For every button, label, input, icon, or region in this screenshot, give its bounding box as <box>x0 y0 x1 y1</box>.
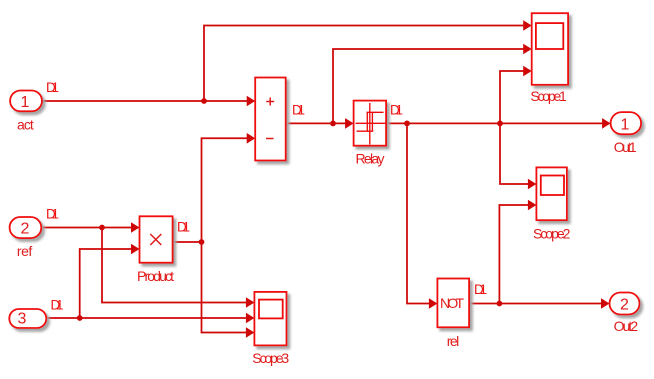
junction port3/product <box>77 315 83 321</box>
arrowhead sum plus <box>247 96 256 107</box>
label D1 relay out <box>390 103 403 118</box>
svg-text:NOT: NOT <box>440 295 464 311</box>
label Scope1 <box>530 88 567 104</box>
wire branch to Scope3 in1 <box>102 228 247 303</box>
svg-text:D1: D1 <box>390 103 403 118</box>
junction main/scope <box>497 121 503 127</box>
svg-text:2: 2 <box>21 221 30 238</box>
wire branch up to Product in2 <box>80 249 132 318</box>
svg-text:D1: D1 <box>46 206 59 221</box>
arrowhead scope1 in3 <box>523 66 532 77</box>
sum block <box>255 78 286 161</box>
relay icon <box>356 103 386 145</box>
wire branch down to NOT input <box>407 123 430 303</box>
wire product output <box>173 241 202 243</box>
wire branch to Scope1 in2 <box>333 49 524 123</box>
wire relay output to Out1 <box>386 122 602 124</box>
label rel <box>447 333 460 349</box>
arrowhead product in2 <box>131 244 140 255</box>
inport 1 act <box>10 91 42 112</box>
arrowhead Out1 in <box>602 118 611 129</box>
arrowhead scope1 in1 <box>523 20 532 31</box>
label ref <box>17 243 33 259</box>
wire sum output to relay <box>286 122 346 124</box>
wire top branch to Scope1 in1 <box>204 26 524 102</box>
label Scope3 <box>252 350 289 366</box>
junction product out <box>199 239 205 245</box>
junction main/not <box>404 121 410 127</box>
svg-text:Out1: Out1 <box>614 139 637 155</box>
wire branch up to Sum minus <box>202 138 248 242</box>
label D1 ref <box>46 206 59 221</box>
arrowhead sum minus <box>247 133 256 144</box>
wire branch down to Scope3 in3 <box>202 242 247 333</box>
wire port3 line to Scope3 in2 <box>46 317 247 319</box>
label D1 sum out <box>292 103 305 118</box>
arrowhead Out2 in <box>601 298 610 309</box>
arrowhead scope1 in2 <box>523 44 532 55</box>
arrowhead scope2 in1 <box>528 179 537 190</box>
junction act/top <box>201 98 207 104</box>
junction main/scope1in2 <box>330 121 336 127</box>
svg-text:D1: D1 <box>474 282 487 297</box>
scope3 screen <box>259 300 283 319</box>
scope1 screen <box>536 23 563 49</box>
outport 1 <box>611 112 642 134</box>
scope2 screen <box>541 176 564 196</box>
wire branch to Scope2 in1 <box>500 123 529 184</box>
arrowhead scope3 in1 <box>246 297 255 308</box>
label Scope2 <box>533 226 571 242</box>
NOT block <box>437 279 469 328</box>
scope2 block <box>536 167 567 220</box>
wire branch up to Scope2 in2 <box>499 205 528 304</box>
svg-text:Scope2: Scope2 <box>533 226 571 242</box>
svg-text:Scope3: Scope3 <box>252 350 289 366</box>
svg-text:1: 1 <box>21 94 30 111</box>
inport 3 <box>9 309 46 328</box>
svg-text:Scope1: Scope1 <box>530 88 567 104</box>
label D1 product out <box>177 220 190 235</box>
arrowhead relay in <box>345 118 354 129</box>
svg-text:rel: rel <box>447 333 460 349</box>
label NOT <box>440 295 464 311</box>
label act <box>17 117 34 133</box>
svg-text:Product: Product <box>137 268 174 284</box>
junction ref/scope3 <box>99 225 105 231</box>
outport 2 <box>610 293 640 315</box>
wire ref line to Product in1 <box>41 227 132 229</box>
svg-text:Relay: Relay <box>356 151 385 167</box>
label D1 act <box>46 80 59 95</box>
label Product <box>137 268 174 284</box>
svg-text:3: 3 <box>18 311 27 328</box>
arrowhead scope2 in2 <box>528 200 537 211</box>
label Relay <box>356 151 385 167</box>
arrowhead scope3 in3 <box>246 327 255 338</box>
product X sign <box>150 234 161 245</box>
svg-text:D1: D1 <box>177 220 190 235</box>
arrowhead scope3 in2 <box>246 313 255 324</box>
label Out2 <box>614 318 639 334</box>
scope1 block <box>532 13 568 85</box>
arrowhead product in1 <box>131 222 140 233</box>
label D1 port3 <box>51 298 64 313</box>
svg-text:D1: D1 <box>292 103 305 118</box>
label Out1 <box>614 139 637 155</box>
inport 2 ref <box>10 217 42 238</box>
wire NOT output to Out2 <box>469 303 601 305</box>
label D1 not out <box>474 282 487 297</box>
sum plus sign <box>266 98 274 106</box>
relay block <box>354 101 387 146</box>
svg-text:D1: D1 <box>46 80 59 95</box>
junction notout/scope2 <box>497 301 503 307</box>
svg-text:act: act <box>17 117 34 133</box>
arrowhead NOT in <box>429 298 438 309</box>
svg-text:D1: D1 <box>51 298 64 313</box>
sum minus sign <box>266 138 274 140</box>
wire act line <box>42 100 247 102</box>
svg-text:1: 1 <box>621 116 630 133</box>
svg-text:Out2: Out2 <box>614 318 639 334</box>
product block <box>140 216 173 262</box>
scope3 block <box>254 292 286 346</box>
svg-text:2: 2 <box>620 296 629 313</box>
wire branch to Scope1 in3 <box>500 71 524 123</box>
svg-text:ref: ref <box>17 243 33 259</box>
